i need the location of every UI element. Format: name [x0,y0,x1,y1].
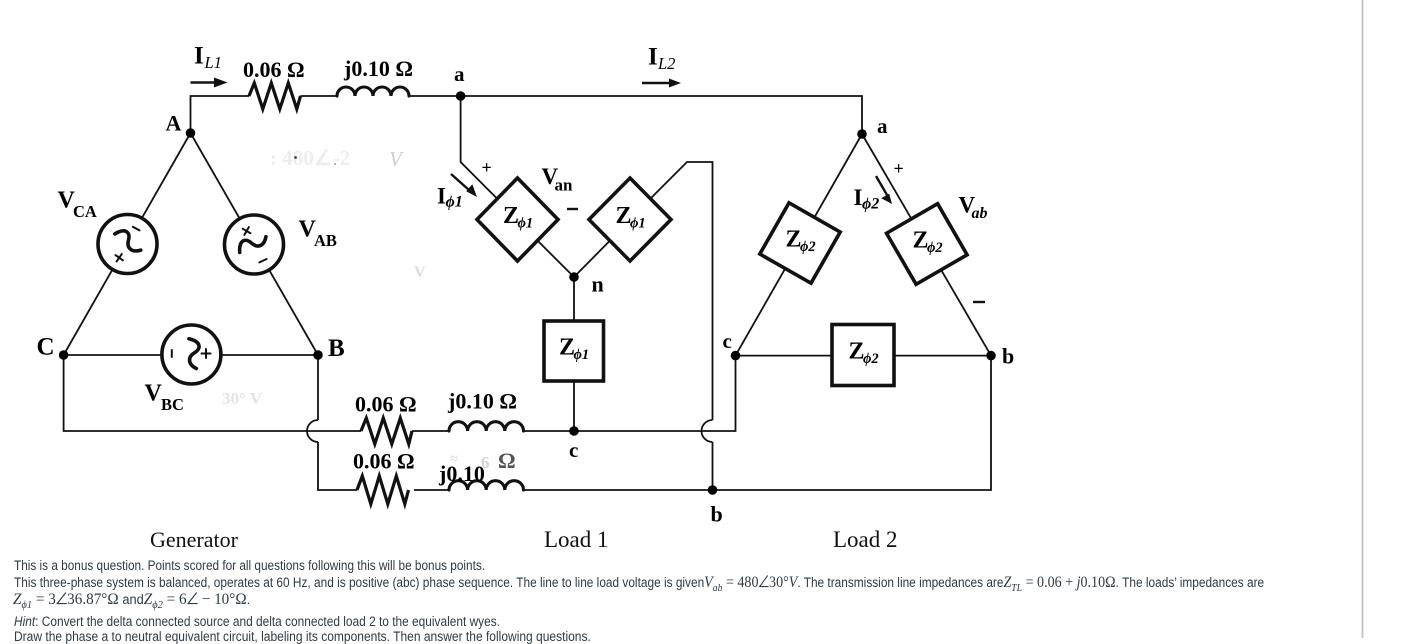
svg-text:0.06 Ω: 0.06 Ω [353,449,415,474]
svg-text:A: A [166,111,182,136]
svg-text:ϕ1: ϕ1 [574,347,590,363]
svg-text:c: c [723,329,732,353]
svg-text:ϕ1: ϕ1 [518,216,534,232]
svg-text:I: I [194,43,204,70]
svg-text:I: I [648,44,658,71]
svg-text:C: C [37,334,55,361]
svg-text:an: an [555,176,574,195]
svg-text:L1: L1 [204,53,222,72]
svg-text:ϕ1: ϕ1 [630,216,646,232]
svg-text:Ω: Ω [498,448,516,473]
svg-text:j0.10 Ω: j0.10 Ω [447,389,517,414]
svg-text:n: n [592,272,604,297]
svg-text:CA: CA [73,202,97,221]
svg-text:0.06 Ω: 0.06 Ω [355,392,417,417]
svg-text:ϕ1: ϕ1 [446,194,463,211]
svg-text:30° V: 30° V [222,389,263,408]
svg-text:a: a [877,114,888,138]
svg-text:+: + [894,159,904,179]
svg-text:L2: L2 [657,54,675,73]
svg-text:c: c [569,438,578,462]
svg-text:ϕ2: ϕ2 [800,239,816,255]
svg-text:j0.10: j0.10 [438,461,485,486]
svg-text:Load 1: Load 1 [544,527,609,552]
svg-text:0.06 Ω: 0.06 Ω [243,57,305,82]
svg-text:Load 2: Load 2 [833,527,898,552]
svg-text:a: a [454,62,465,86]
svg-text:b: b [1002,344,1014,369]
svg-text:ab: ab [972,205,988,222]
svg-text:AB: AB [314,231,337,250]
svg-text:ϕ2: ϕ2 [927,240,943,256]
svg-text:ϕ2: ϕ2 [863,351,879,367]
svg-text:b: b [711,502,723,527]
svg-text:V: V [414,264,426,281]
svg-text:Generator: Generator [150,527,239,552]
svg-text:j0.10 Ω: j0.10 Ω [343,56,413,81]
svg-text:ϕ2: ϕ2 [862,196,879,213]
svg-text:BC: BC [161,395,184,414]
svg-text:V: V [389,147,404,171]
svg-text:V: V [145,381,163,407]
svg-text:+: + [482,158,492,178]
svg-text:B: B [328,335,345,362]
svg-text:: 480∠-2: : 480∠-2 [270,146,350,170]
